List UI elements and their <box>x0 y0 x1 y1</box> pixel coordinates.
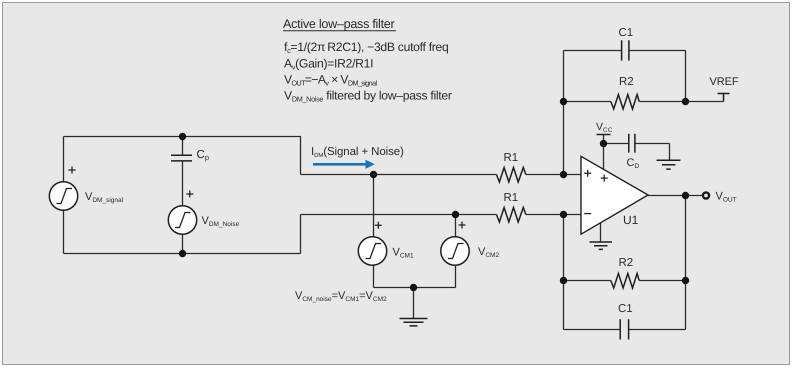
terminal VCC <box>597 134 611 136</box>
svg-text:fc=1/(2π R2C1), −3dB cutoff fr: fc=1/(2π R2C1), −3dB cutoff freq <box>284 40 449 55</box>
svg-text:R1: R1 <box>504 192 519 204</box>
ground VCM <box>400 319 428 326</box>
node Cp bottom <box>179 250 186 257</box>
wire source loop left <box>63 137 65 254</box>
source VCM1 <box>358 237 386 265</box>
capacitor C1 top <box>622 40 629 60</box>
svg-text:R1: R1 <box>504 152 519 164</box>
svg-text:C1: C1 <box>618 303 633 315</box>
source VDM_Noise <box>168 206 196 234</box>
node minus input <box>560 211 567 218</box>
node R2 bottom right <box>682 277 689 284</box>
op-amp U1 <box>581 156 648 234</box>
node R2 top right <box>682 98 689 105</box>
plus VCM1 <box>375 222 382 229</box>
source VDM_signal <box>49 182 77 210</box>
wire top feedback right vertical <box>685 51 687 102</box>
wire top feedback left vertical <box>563 51 565 175</box>
wire VCM2 top lead <box>455 215 457 238</box>
minus op-amp input <box>584 213 591 215</box>
plus op-amp supply <box>601 175 608 182</box>
plus VDM_Noise <box>186 191 193 198</box>
resistor R2 top <box>611 95 639 110</box>
resistor R1 upper <box>497 168 526 183</box>
node plus input <box>560 171 567 178</box>
source VCM2 <box>441 237 469 265</box>
resistor R1 lower <box>497 208 526 223</box>
wire top R2 row <box>564 101 686 103</box>
wire source loop top <box>64 136 302 138</box>
svg-text:U1: U1 <box>623 213 639 227</box>
wire VCM2 bottom lead <box>455 265 457 288</box>
node upper VCM1 <box>370 171 377 178</box>
wire Vcc lead <box>603 135 605 170</box>
wire ground lead <box>413 288 415 319</box>
node R2 bottom left <box>560 277 567 284</box>
svg-text:C1: C1 <box>619 27 634 39</box>
svg-text:Active low–pass filter: Active low–pass filter <box>283 17 395 31</box>
wire top C1 row <box>564 50 686 52</box>
wire Cp top lead <box>182 137 184 156</box>
node VCM ground <box>410 284 417 291</box>
note: title Active low-pass filter <box>283 17 396 31</box>
capacitor Cp <box>171 155 192 161</box>
node VCC junction <box>600 140 607 147</box>
svg-text:R2: R2 <box>619 76 634 88</box>
wire CD to ground <box>635 144 670 161</box>
wire source loop bottom <box>64 253 301 255</box>
wire bottom feedback left vertical <box>563 215 565 330</box>
arrow IDM <box>313 160 375 169</box>
svg-text:VREF: VREF <box>710 76 739 88</box>
node lower VCM2 <box>452 211 459 218</box>
ground op-amp <box>590 242 613 249</box>
wire VCM1 top lead <box>373 175 375 238</box>
ground CD <box>657 160 681 169</box>
svg-text:IDM(Signal + Noise): IDM(Signal + Noise) <box>311 146 404 159</box>
plus VCM2 <box>459 222 466 229</box>
wire Vcc to CD <box>604 143 629 145</box>
wire bottom C1 row <box>564 329 686 331</box>
wire Cp bottom lead <box>182 161 184 206</box>
node output <box>682 192 689 199</box>
wire upper step to R1 <box>301 137 497 175</box>
node R2 top left <box>560 98 567 105</box>
wire to VREF <box>686 101 724 103</box>
plus VDM_signal <box>69 167 76 174</box>
wire VDM_Noise bottom lead <box>182 234 184 254</box>
resistor R2 bottom <box>611 274 639 289</box>
wire lower step to R1 <box>301 215 497 254</box>
capacitor C1 bottom <box>620 319 628 339</box>
svg-text:Av(Gain)=IR2/R1I: Av(Gain)=IR2/R1I <box>284 57 373 72</box>
wire output <box>648 195 702 197</box>
plus op-amp input <box>584 170 591 177</box>
capacitor CD <box>629 134 635 153</box>
wire VCM common bus <box>374 287 456 289</box>
wire op-amp ground lead <box>600 223 602 242</box>
svg-text:R2: R2 <box>619 257 634 269</box>
terminal VOUT <box>703 192 709 198</box>
node Cp top <box>179 133 186 140</box>
wire lower R1 to op-amp <box>526 214 581 216</box>
wire upper R1 to op-amp <box>526 174 581 176</box>
wire VCM1 bottom lead <box>373 265 375 288</box>
wire bottom R2 row <box>564 280 686 282</box>
wire output feedback vertical <box>685 196 687 330</box>
terminal VREF <box>718 94 730 102</box>
